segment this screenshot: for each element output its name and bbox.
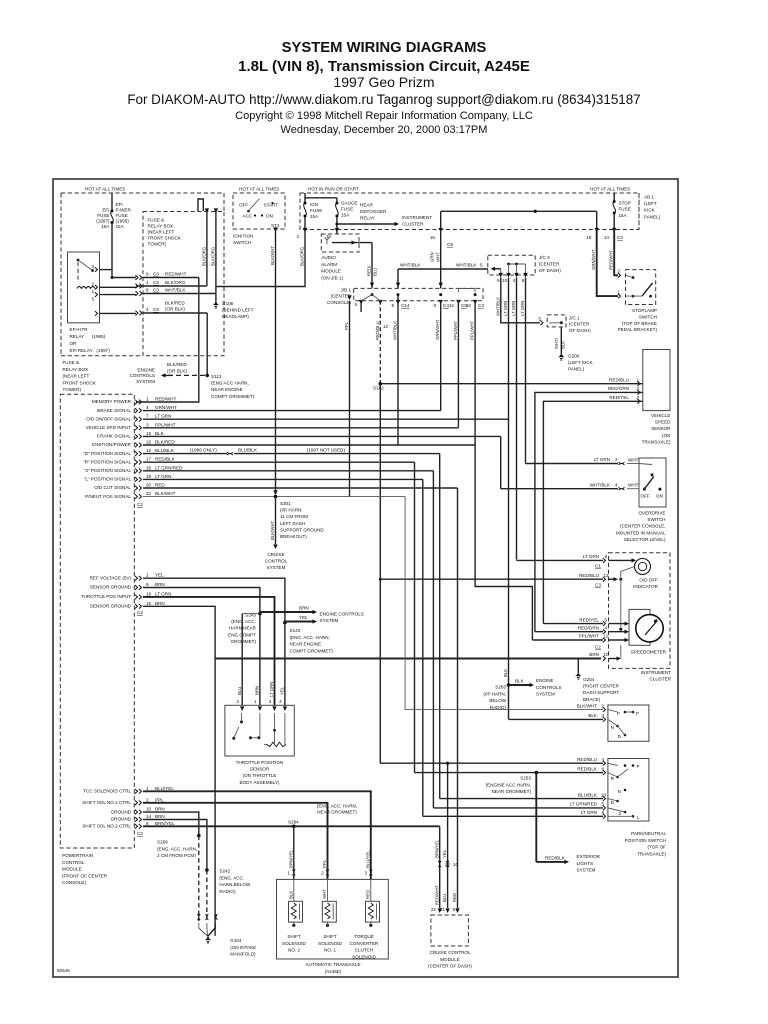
- svg-text:PANEL): PANEL): [644, 214, 661, 219]
- svg-text:8: 8: [146, 288, 149, 293]
- svg-text:MODULE: MODULE: [321, 269, 341, 274]
- svg-text:TRANSAXLE): TRANSAXLE): [637, 851, 666, 856]
- svg-text:SENSOR GROUND: SENSOR GROUND: [90, 604, 132, 609]
- wire BLU/BLK D-position row (1996 only): [143, 453, 227, 455]
- svg-text:YEL: YEL: [280, 686, 285, 695]
- J/B1 wire WHT/BLK through: [397, 269, 399, 288]
- torque converter clutch solenoid coil: [366, 901, 380, 922]
- fuse EFI 15A (1997/1995): [111, 212, 113, 222]
- svg-text:NEAR GROMMET): NEAR GROMMET): [317, 810, 357, 815]
- wire BLU cruise drop: [447, 763, 449, 908]
- svg-text:SHIFT: SHIFT: [287, 934, 300, 939]
- svg-text:RELAY BOX: RELAY BOX: [148, 224, 174, 229]
- svg-text:RED/: RED/: [367, 265, 372, 276]
- svg-text:S269: S269: [157, 840, 168, 845]
- wire LT GRN 2 row to overdrive switch: [526, 463, 619, 465]
- svg-text:15: 15: [146, 431, 152, 436]
- svg-text:SHIFT: SHIFT: [323, 934, 336, 939]
- wire BRN sensor ground bus row: [215, 658, 601, 660]
- svg-text:BLU/BLK: BLU/BLK: [155, 448, 175, 453]
- wire RED/WHT stop fuse to switch: [614, 230, 618, 276]
- J/C3 connector arrows: [499, 273, 503, 278]
- svg-text:C3: C3: [153, 288, 159, 293]
- svg-text:BLK/WHT: BLK/WHT: [577, 703, 598, 708]
- svg-text:POSITION SWITCH: POSITION SWITCH: [625, 838, 666, 843]
- svg-text:CRUISE CONTROL: CRUISE CONTROL: [429, 950, 471, 955]
- svg-text:ON: ON: [656, 494, 663, 499]
- svg-text:1: 1: [146, 786, 149, 791]
- svg-text:9: 9: [497, 278, 500, 283]
- svg-text:(ENG. ACC.: (ENG. ACC.: [219, 875, 244, 880]
- svg-text:4: 4: [279, 699, 282, 704]
- svg-text:(ON J/B 1): (ON J/B 1): [321, 275, 343, 280]
- svg-text:WHT/BLK: WHT/BLK: [456, 263, 477, 268]
- svg-text:(ENG ACC HARN,: (ENG ACC HARN,: [211, 381, 249, 386]
- svg-text:AB 1: AB 1: [644, 195, 654, 200]
- svg-text:LT GRN: LT GRN: [155, 474, 171, 479]
- wire BLK/WHT 2 row to P/N switch: [405, 497, 603, 710]
- connector arrows below run/start box: [303, 228, 307, 233]
- svg-text:SUPPORT GROUND: SUPPORT GROUND: [280, 527, 324, 532]
- svg-text:WHT/BLK: WHT/BLK: [496, 297, 501, 316]
- junction S113: [205, 374, 209, 378]
- svg-text:16: 16: [430, 235, 436, 240]
- svg-text:IGN: IGN: [310, 202, 318, 207]
- svg-text:HOT AT ALL TIMES: HOT AT ALL TIMES: [239, 187, 279, 192]
- ground G204: [576, 676, 581, 679]
- svg-text:STOP: STOP: [619, 201, 631, 206]
- ignition switch dashed box: [233, 193, 285, 229]
- arrow YEL to engine controls: [285, 621, 314, 623]
- vehicle speed sensor box: [643, 350, 670, 411]
- dashed fuse/relay box bottom edge: [61, 355, 143, 357]
- svg-text:CONSOLE): CONSOLE): [327, 300, 351, 305]
- svg-text:(ENG. ACC. HARN,: (ENG. ACC. HARN,: [290, 635, 330, 640]
- svg-text:BLK: BLK: [561, 341, 566, 349]
- svg-text:FRONT SHOCK: FRONT SHOCK: [63, 380, 97, 385]
- svg-text:2: 2: [236, 699, 239, 704]
- wire LT GRN L-position row: [143, 478, 423, 480]
- svg-text:C6: C6: [153, 307, 159, 312]
- svg-text:RED/BLK: RED/BLK: [545, 856, 566, 861]
- svg-text:82545: 82545: [57, 968, 70, 973]
- svg-text:RELAY (1995): RELAY (1995): [70, 334, 106, 339]
- svg-text:SYSTEM: SYSTEM: [320, 618, 339, 623]
- wire cluster feed horizontal y211: [441, 210, 597, 212]
- svg-text:BLU/BLK: BLU/BLK: [578, 792, 598, 797]
- svg-text:SHIFT SOL NO.2 CTRL: SHIFT SOL NO.2 CTRL: [82, 824, 131, 829]
- svg-text:FUSE: FUSE: [116, 213, 128, 218]
- svg-text:VEHICLE: VEHICLE: [651, 413, 671, 418]
- svg-text:AUTOMATIC TRANSAXLE: AUTOMATIC TRANSAXLE: [305, 962, 360, 967]
- svg-text:RED/BLU: RED/BLU: [375, 321, 380, 340]
- svg-text:WHT: WHT: [628, 458, 639, 463]
- svg-text:CONTROLS: CONTROLS: [536, 685, 562, 690]
- wire EFI fuse feed vertical: [111, 193, 113, 278]
- svg-text:RELAY: RELAY: [360, 215, 375, 220]
- cruise pin arrows: [438, 908, 442, 913]
- svg-text:12: 12: [604, 573, 610, 578]
- svg-text:C6: C6: [153, 272, 159, 277]
- svg-text:C3: C3: [595, 583, 601, 588]
- wire BLU/BLK 10 row to P/N switch: [440, 798, 603, 800]
- svg-text:BLK: BLK: [288, 891, 293, 899]
- svg-text:4: 4: [513, 278, 516, 283]
- svg-text:OR: OR: [70, 341, 78, 346]
- svg-text:J/B 1: J/B 1: [341, 288, 352, 293]
- svg-text:BRN: BRN: [155, 601, 165, 606]
- svg-text:P-WER: P-WER: [116, 208, 132, 213]
- relay pin 4: [95, 311, 98, 316]
- svg-text:RED/WHT: RED/WHT: [155, 397, 177, 402]
- svg-text:(TOP OF BRAKE: (TOP OF BRAKE: [622, 321, 657, 326]
- wire BRN dashed to G104 (2): [206, 870, 208, 921]
- svg-text:10: 10: [502, 278, 508, 283]
- svg-text:(1996 ONLY): (1996 ONLY): [190, 448, 217, 453]
- svg-text:RED: RED: [365, 890, 370, 899]
- svg-text:LEFT DASH: LEFT DASH: [280, 521, 305, 526]
- speedometer needle: [645, 620, 657, 635]
- wire PPL/WHT vehicle speed row: [143, 427, 458, 429]
- wire RED/GRN 4 row: [535, 631, 603, 633]
- svg-text:WHT/BLK: WHT/BLK: [400, 263, 421, 268]
- svg-text:12: 12: [449, 303, 455, 308]
- wire PPL/WHT 12 row: [532, 639, 603, 641]
- svg-text:MEMORY POWER: MEMORY POWER: [92, 399, 132, 404]
- wire BLK/RED drop to S113: [206, 313, 208, 375]
- svg-text:REAR: REAR: [360, 203, 373, 208]
- wire GAUGE fuse drop: [336, 198, 338, 230]
- TPS resistor: [267, 742, 287, 746]
- junction S143: [283, 621, 287, 625]
- svg-text:LT GRN: LT GRN: [581, 810, 597, 815]
- svg-text:S143: S143: [290, 628, 301, 633]
- svg-text:(ENG. ACC. HARN,: (ENG. ACC. HARN,: [157, 846, 197, 851]
- svg-text:15A: 15A: [341, 213, 350, 218]
- dashed divider AB1: [638, 193, 640, 230]
- svg-text:(1997 NOT USED): (1997 NOT USED): [307, 448, 346, 453]
- wire BLK 3 row to P/N switch: [509, 718, 604, 720]
- ground G106: [213, 305, 218, 308]
- svg-text:SOLENOID: SOLENOID: [282, 941, 306, 946]
- svg-text:CRANK SIGNAL: CRANK SIGNAL: [97, 434, 132, 439]
- svg-text:CLUSTER: CLUSTER: [650, 677, 672, 682]
- svg-text:(CENTER OF DASH): (CENTER OF DASH): [428, 964, 472, 969]
- svg-text:BRN: BRN: [155, 582, 165, 587]
- svg-text:SELECTOR LEVEL): SELECTOR LEVEL): [624, 537, 666, 542]
- svg-text:4: 4: [146, 307, 149, 312]
- svg-text:PARK/NEUTRAL: PARK/NEUTRAL: [631, 831, 666, 836]
- svg-text:RELAY BOX: RELAY BOX: [63, 367, 89, 372]
- audio alarm module dashed box: [321, 234, 359, 252]
- svg-text:C1: C1: [595, 564, 601, 569]
- svg-text:BLU: BLU: [237, 687, 242, 695]
- svg-text:15A: 15A: [116, 224, 125, 229]
- svg-text:12: 12: [604, 634, 610, 639]
- svg-text:INSTRUMENT: INSTRUMENT: [402, 215, 432, 220]
- svg-text:FUSE: FUSE: [310, 208, 322, 213]
- junction S162: [379, 382, 383, 386]
- svg-text:FUSE: FUSE: [619, 207, 631, 212]
- svg-text:(1997): (1997): [96, 219, 110, 224]
- svg-text:FRONT SHOCK: FRONT SHOCK: [148, 236, 182, 241]
- svg-text:PPL: PPL: [155, 797, 164, 802]
- svg-text:GROUND: GROUND: [111, 809, 132, 814]
- svg-text:(I/P HARN,: (I/P HARN,: [483, 691, 506, 696]
- svg-text:16: 16: [146, 465, 152, 470]
- svg-text:RED/WHT: RED/WHT: [609, 250, 614, 270]
- svg-text:VEHICLE SPD INPUT: VEHICLE SPD INPUT: [86, 425, 132, 430]
- junction S353: [535, 771, 539, 775]
- svg-text:THROTTLE POSITION: THROTTLE POSITION: [236, 760, 283, 765]
- relay pin 1: [95, 292, 98, 297]
- svg-text:LT GRN: LT GRN: [155, 591, 171, 596]
- wire GRN/WHT brake signal row: [143, 410, 441, 412]
- svg-text:SYSTEM: SYSTEM: [536, 692, 555, 697]
- TPS contact pair: [249, 736, 252, 739]
- wire WHT/BLK 4 row to overdrive switch: [501, 488, 618, 490]
- wire PPL shift sol no1 row: [143, 803, 328, 880]
- svg-text:S242: S242: [219, 869, 230, 874]
- svg-text:S264: S264: [288, 820, 299, 825]
- junction on cluster feed: [534, 210, 537, 213]
- svg-text:1: 1: [287, 871, 290, 876]
- wire BLK drop to overdrive row: [500, 436, 502, 488]
- J/C1 entry connector: [540, 320, 543, 325]
- svg-text:G200: G200: [568, 354, 580, 359]
- wire RED/BLU stub left: [360, 301, 362, 312]
- svg-text:NEAR ENGINE: NEAR ENGINE: [211, 387, 243, 392]
- svg-text:HOT IN RUN OR START: HOT IN RUN OR START: [308, 187, 359, 192]
- wire RED/BLK 8 row to P/N switch: [415, 772, 604, 774]
- svg-text:FUSE &: FUSE &: [148, 218, 165, 223]
- svg-text:(FRONT OF CENTER: (FRONT OF CENTER: [62, 873, 108, 878]
- svg-text:(CENTER CONSOLE,: (CENTER CONSOLE,: [620, 524, 665, 529]
- svg-text:WHT: WHT: [628, 483, 639, 488]
- wire BLK/WHT p/neut row: [143, 496, 405, 498]
- svg-text:(1995): (1995): [116, 219, 130, 224]
- svg-text:D: D: [618, 734, 622, 739]
- svg-text:P: P: [636, 711, 639, 716]
- svg-text:BRAKE SIGNAL: BRAKE SIGNAL: [97, 408, 131, 413]
- TPS pin arrows: [240, 706, 244, 711]
- svg-text:8: 8: [433, 303, 436, 308]
- svg-text:MANIFOLD): MANIFOLD): [230, 952, 256, 957]
- svg-text:G204: G204: [583, 677, 595, 682]
- relay coil: [77, 287, 95, 289]
- wire RED/BLU S162 down: [379, 384, 381, 764]
- svg-text:ENGINE: ENGINE: [536, 678, 554, 683]
- wire BRN ground row1 drop: [143, 812, 199, 836]
- connector break cruise wire1: [438, 861, 441, 867]
- wire BLK crank row: [143, 435, 501, 437]
- wire RED/GRN 2 to VSS: [535, 392, 643, 631]
- svg-text:RED/YEL: RED/YEL: [579, 617, 599, 622]
- connector arrow stop fuse: [612, 228, 616, 233]
- svg-text:ON: ON: [266, 214, 273, 219]
- svg-text:G104: G104: [230, 938, 242, 943]
- svg-text:EFI RELAY (1997): EFI RELAY (1997): [70, 348, 111, 353]
- svg-text:15A: 15A: [101, 224, 110, 229]
- svg-text:SENSOR GROUND: SENSOR GROUND: [90, 585, 132, 590]
- svg-text:SENSOR: SENSOR: [250, 767, 270, 772]
- wire PPL/WHT #2 down: [475, 301, 532, 640]
- wire RED/WHT relay output row: [112, 277, 136, 279]
- wire BRN inside cluster: [620, 645, 622, 658]
- svg-text:OFF: OFF: [641, 494, 650, 499]
- svg-text:NO. 1: NO. 1: [324, 948, 336, 953]
- connector break overdrive row2: [619, 487, 625, 490]
- wire BRN branch to G204: [577, 659, 579, 672]
- svg-text:GRN: GRN: [430, 252, 435, 262]
- svg-text:(ON THROTTLE: (ON THROTTLE: [243, 773, 277, 778]
- svg-text:(ON INTAKE: (ON INTAKE: [230, 945, 256, 950]
- svg-text:J/C 3: J/C 3: [539, 255, 550, 260]
- junction connector J/C 3 dashed box: [488, 255, 535, 275]
- wire RED/BLK drop: [414, 462, 416, 772]
- svg-text:4: 4: [605, 625, 608, 630]
- stoplamp switch dashed box: [626, 270, 656, 305]
- svg-text:INDICATOR: INDICATOR: [633, 584, 659, 589]
- wire BRN dashed to G104 (1): [198, 836, 200, 921]
- svg-text:10: 10: [146, 440, 152, 445]
- svg-text:18: 18: [146, 474, 152, 479]
- svg-text:WHT/BLK: WHT/BLK: [393, 321, 398, 340]
- svg-text:9: 9: [391, 303, 394, 308]
- svg-text:C3: C3: [478, 303, 484, 308]
- svg-text:MODULE: MODULE: [440, 957, 460, 962]
- junction S301: [274, 495, 278, 499]
- svg-text:YEL: YEL: [155, 573, 164, 578]
- TPS switch lever: [232, 737, 235, 740]
- svg-text:BLK: BLK: [155, 431, 165, 436]
- svg-text:PEDAL BRACKET): PEDAL BRACKET): [618, 327, 658, 332]
- wire BLK/ORG link fuse to relay: [136, 285, 207, 287]
- svg-text:WHT/BLK: WHT/BLK: [590, 482, 611, 487]
- wire LT GRN o/d on-off row: [143, 418, 509, 420]
- svg-text:EFI-HTR: EFI-HTR: [70, 327, 89, 332]
- svg-text:BLK/WHT: BLK/WHT: [270, 246, 275, 265]
- wire BLK/RED ignition row: [143, 444, 475, 446]
- svg-text:SWITCH: SWITCH: [233, 240, 251, 245]
- svg-text:20: 20: [146, 483, 152, 488]
- wire RED/BLU 4 row to P/N switch: [380, 762, 603, 764]
- svg-text:POWERTRAIN: POWERTRAIN: [62, 853, 93, 858]
- svg-text:PPL: PPL: [322, 859, 327, 868]
- svg-text:1: 1: [146, 573, 149, 578]
- svg-text:OF DASH): OF DASH): [569, 328, 591, 333]
- junction S265: [507, 683, 511, 687]
- svg-text:RED/BLU: RED/BLU: [609, 378, 629, 383]
- svg-text:SPEED: SPEED: [655, 420, 671, 425]
- svg-text:DEFOGGER: DEFOGGER: [360, 209, 387, 214]
- svg-text:Wednesday, December 20, 2000: Wednesday, December 20, 2000 03:17PM: [281, 124, 488, 136]
- svg-text:(CENTER: (CENTER: [539, 261, 560, 266]
- fuse block dashed right edge of strip: [223, 193, 225, 212]
- diagram border frame: [53, 179, 678, 977]
- svg-text:10: 10: [146, 807, 152, 812]
- svg-text:G106: G106: [222, 301, 234, 306]
- svg-text:ST1: ST1: [271, 223, 280, 228]
- dashed fuse &amp; relay box (right): [143, 212, 224, 356]
- wire RED o/d cut row: [143, 487, 458, 489]
- svg-text:BLU: BLU: [373, 268, 378, 276]
- svg-text:(A245E): (A245E): [325, 969, 342, 974]
- svg-text:THROTTLE POS INPUT: THROTTLE POS INPUT: [81, 594, 131, 599]
- wire WHT/BLK J/B1 down: [397, 301, 399, 445]
- arrow BLK to engine controls (right): [509, 684, 532, 686]
- svg-text:YEL: YEL: [442, 849, 447, 858]
- svg-text:For DIAKOM-AUTO http://www.dia: For DIAKOM-AUTO http://www.diakom.ru Tag…: [127, 92, 640, 107]
- svg-text:"R" POSITION SIGNAL: "R" POSITION SIGNAL: [83, 459, 131, 464]
- svg-text:NEAR ENGINE: NEAR ENGINE: [290, 642, 322, 647]
- svg-text:1.8L (VIN 8), Transmission Cir: 1.8L (VIN 8), Transmission Circuit, A245…: [238, 58, 530, 75]
- wire WHT/BLK J/C3 drop to J/C1: [501, 278, 540, 323]
- svg-text:O/D CUT SIGNAL: O/D CUT SIGNAL: [94, 485, 131, 490]
- svg-text:RED/GRN: RED/GRN: [578, 625, 599, 630]
- svg-text:10: 10: [453, 862, 459, 867]
- svg-text:AUDIO: AUDIO: [321, 255, 336, 260]
- wire gauge fuse to audio module: [336, 230, 338, 235]
- svg-text:RED/GRN: RED/GRN: [608, 386, 629, 391]
- svg-text:REF VOLTAGE (5V): REF VOLTAGE (5V): [90, 575, 132, 580]
- svg-text:RED: RED: [155, 483, 165, 488]
- fuse GAUGE 15A: [336, 204, 338, 215]
- svg-text:ACC: ACC: [243, 214, 253, 219]
- svg-text:LT GRN: LT GRN: [155, 414, 171, 419]
- overdrive switch box: [639, 458, 666, 507]
- svg-text:SOLENOID: SOLENOID: [318, 941, 342, 946]
- wire RED/YEL 5 row: [543, 623, 603, 625]
- svg-text:BELOW: BELOW: [489, 698, 506, 703]
- svg-text:PPL/WHT: PPL/WHT: [453, 321, 458, 340]
- svg-text:(ENG. ACC. HARN,: (ENG. ACC. HARN,: [317, 803, 357, 808]
- fuse block dashed top edge (hot at all times left): [61, 192, 224, 194]
- svg-text:C2: C2: [137, 831, 143, 836]
- svg-text:EFI: EFI: [102, 208, 109, 213]
- J/C1 internal node: [560, 321, 563, 324]
- automatic transaxle box: [277, 879, 389, 959]
- svg-text:SYSTEM WIRING DIAGRAMS: SYSTEM WIRING DIAGRAMS: [282, 40, 487, 56]
- wire RED/BLU J/B1 second feed from ignition region: [349, 301, 351, 497]
- svg-text:11 CM FROM: 11 CM FROM: [280, 514, 308, 519]
- svg-text:14: 14: [146, 814, 152, 819]
- svg-text:12: 12: [146, 448, 152, 453]
- svg-text:(ENG. ACC.: (ENG. ACC.: [231, 619, 256, 624]
- stoplamp switch connectors: [618, 273, 621, 278]
- svg-text:P/NEUT POS SIGNAL: P/NEUT POS SIGNAL: [85, 494, 131, 499]
- svg-text:BREAKOUT): BREAKOUT): [280, 534, 307, 539]
- svg-text:HEADLAMP): HEADLAMP): [222, 314, 249, 319]
- svg-text:5: 5: [354, 302, 357, 307]
- svg-text:CONVERTER: CONVERTER: [350, 941, 379, 946]
- svg-text:6: 6: [146, 821, 149, 826]
- wire YEL ref voltage row: [143, 578, 285, 705]
- svg-text:FUSE: FUSE: [341, 207, 353, 212]
- svg-text:GAUGE: GAUGE: [341, 201, 358, 206]
- svg-text:LT GRN: LT GRN: [503, 301, 508, 316]
- wire BLK/WHT ignition to S301: [275, 229, 277, 494]
- svg-text:(LEFT: (LEFT: [644, 201, 657, 206]
- wire LT GRN drop: [422, 479, 424, 816]
- wire GRN/WHT J/B1 down: [440, 301, 442, 411]
- svg-text:(ON: (ON: [662, 433, 670, 438]
- wire BLU/YEL TCC row: [143, 791, 371, 879]
- svg-text:TRANSAXLE): TRANSAXLE): [642, 439, 671, 444]
- junction S242: [205, 868, 209, 872]
- wire BLK/ORG #1 from fuse box: [206, 211, 208, 286]
- svg-text:R: R: [611, 776, 615, 781]
